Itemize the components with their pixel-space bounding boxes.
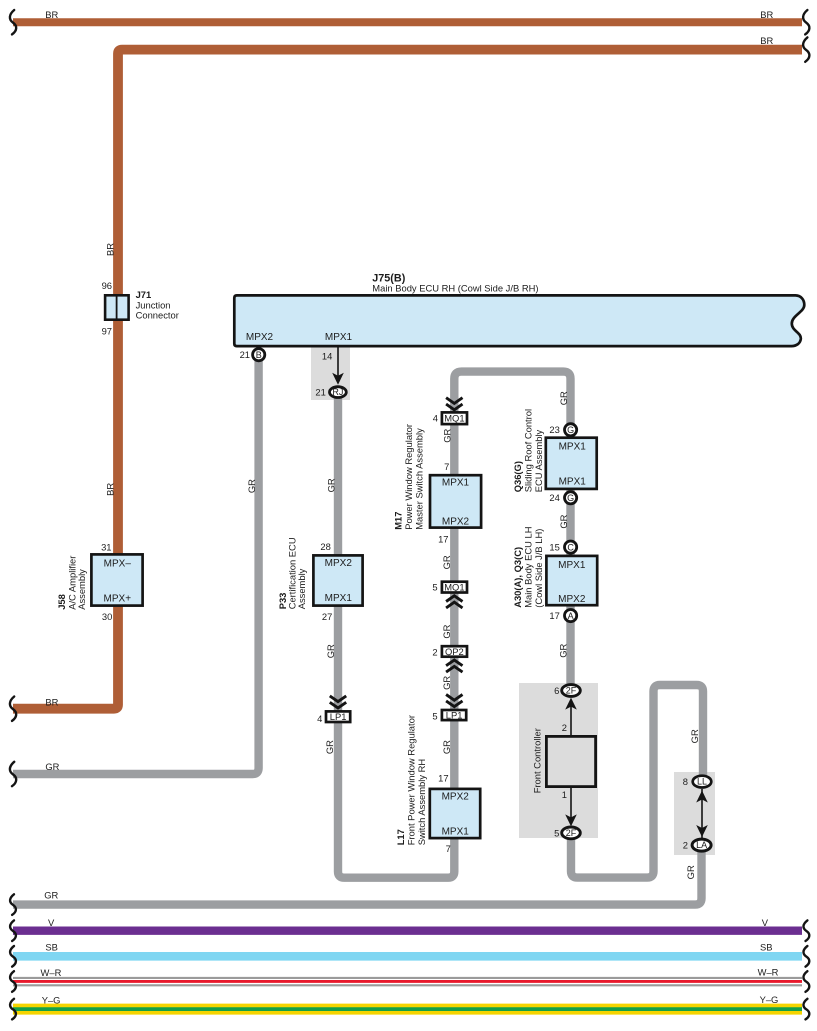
svg-text:ECU Assembly: ECU Assembly <box>533 429 544 492</box>
wire break W-R right <box>803 971 809 992</box>
svg-text:96: 96 <box>102 280 112 291</box>
svg-text:MPX2: MPX2 <box>558 594 586 605</box>
connector box MQ1 pin 5 <box>442 582 467 593</box>
chevrons above MQ1 pin 4 <box>446 398 462 410</box>
connector circle G pin 23 <box>565 424 577 436</box>
ECU box J75(B) Main Body ECU RH <box>234 295 804 346</box>
wire W-R white-red bus upper line <box>13 977 802 979</box>
svg-text:6: 6 <box>554 685 559 696</box>
svg-text:MPX1: MPX1 <box>559 441 587 452</box>
svg-text:MPX2: MPX2 <box>325 558 353 569</box>
svg-text:G: G <box>567 493 574 503</box>
svg-text:C: C <box>567 542 574 552</box>
wire BR top 1 <box>13 18 802 26</box>
connector oval LA pin 2 <box>692 839 711 851</box>
svg-text:Switch Assembly RH: Switch Assembly RH <box>416 759 427 845</box>
chevrons above LP1 pin 5 <box>446 695 462 707</box>
shading behind Front Controller <box>519 683 598 838</box>
svg-text:J71: J71 <box>136 289 152 300</box>
connector oval RJ pin 21 <box>330 387 347 398</box>
svg-text:QP2: QP2 <box>445 646 464 657</box>
svg-text:1: 1 <box>562 789 567 800</box>
svg-text:Connector: Connector <box>136 310 179 321</box>
svg-text:SB: SB <box>760 941 773 952</box>
svg-text:Main Body ECU RH (Cowl Side J/: Main Body ECU RH (Cowl Side J/B RH) <box>372 283 538 294</box>
wire break top left <box>10 10 16 34</box>
svg-text:MPX2: MPX2 <box>442 516 470 527</box>
svg-text:97: 97 <box>102 326 112 337</box>
svg-text:MPX2: MPX2 <box>246 332 274 343</box>
wire break SB right <box>803 946 809 967</box>
svg-text:GR: GR <box>441 555 452 569</box>
wire break Y-G right <box>803 999 809 1020</box>
wire GR RJ-P33-LP1 column joined to M17-L17 column <box>338 394 454 878</box>
wire break BR2 right <box>803 37 809 61</box>
svg-text:Sliding Roof Control: Sliding Roof Control <box>522 409 533 492</box>
svg-text:Front Power Window Regulator: Front Power Window Regulator <box>406 715 417 845</box>
svg-text:BR: BR <box>45 9 58 20</box>
connector oval 2F pin 6 <box>562 685 581 697</box>
svg-text:RJ: RJ <box>332 387 343 397</box>
svg-text:BR: BR <box>760 9 773 20</box>
junction connector J71 <box>105 295 129 319</box>
svg-text:(Cowl Side J/B LH): (Cowl Side J/B LH) <box>533 529 544 608</box>
svg-text:GR: GR <box>442 428 453 442</box>
svg-text:2F: 2F <box>566 828 577 838</box>
svg-text:MPX1: MPX1 <box>559 477 587 488</box>
connector circle C pin 15 <box>565 541 577 553</box>
svg-text:5: 5 <box>432 582 437 593</box>
svg-text:BR: BR <box>105 243 116 256</box>
svg-text:Q36(G): Q36(G) <box>512 461 523 492</box>
svg-text:LL: LL <box>697 777 707 787</box>
svg-text:MPX2: MPX2 <box>442 791 470 802</box>
wire GR arch from MQ1 to Q36 column <box>454 372 570 687</box>
svg-text:GR: GR <box>441 624 452 638</box>
shading behind LL LA connectors <box>674 772 715 855</box>
svg-text:17: 17 <box>549 610 559 621</box>
svg-text:GR: GR <box>45 761 59 772</box>
wire SB sky blue bus <box>13 952 802 961</box>
svg-text:24: 24 <box>549 492 559 503</box>
component box Front Controller <box>546 736 595 786</box>
svg-text:MPX1: MPX1 <box>325 332 353 343</box>
svg-text:M17: M17 <box>392 512 403 530</box>
connector circle B pin 21 <box>253 349 265 361</box>
component box M17 Power Window Regulator Master Switch Assembly <box>430 475 481 527</box>
svg-text:MPX+: MPX+ <box>104 594 132 605</box>
svg-text:GR: GR <box>246 479 257 493</box>
chevrons above LP1 pin 4 <box>330 696 346 708</box>
svg-text:23: 23 <box>549 424 559 435</box>
svg-text:B: B <box>256 350 262 360</box>
svg-text:A: A <box>568 611 574 621</box>
wire GR from 2F to LL <box>571 685 703 878</box>
wire break Y-G left <box>10 999 16 1020</box>
component box J58 A/C Amplifier Assembly <box>91 554 142 605</box>
svg-text:LP1: LP1 <box>330 711 347 722</box>
svg-text:17: 17 <box>438 534 448 545</box>
svg-text:Front Controller: Front Controller <box>531 728 542 793</box>
svg-text:V: V <box>762 917 769 928</box>
svg-text:MPX1: MPX1 <box>558 560 586 571</box>
svg-text:4: 4 <box>317 713 322 724</box>
svg-text:BR: BR <box>105 483 116 496</box>
svg-text:G: G <box>567 425 574 435</box>
connector oval LL pin 8 <box>693 776 712 788</box>
connector box MQ1 pin 4 <box>442 412 467 424</box>
svg-text:A30(A), Q3(C): A30(A), Q3(C) <box>512 547 523 608</box>
svg-text:GR: GR <box>558 643 569 657</box>
svg-text:GR: GR <box>685 865 696 879</box>
svg-text:GR: GR <box>326 478 337 492</box>
double arrow between LL and LA <box>696 789 708 839</box>
svg-text:MPX–: MPX– <box>104 559 132 570</box>
svg-text:5: 5 <box>554 827 559 838</box>
chevrons below MQ1 pin 5 <box>446 596 462 608</box>
connector circle A pin 17 <box>565 610 577 622</box>
svg-text:28: 28 <box>320 541 330 552</box>
svg-text:31: 31 <box>101 541 111 552</box>
wire break BR1 right <box>803 10 809 34</box>
svg-text:GR: GR <box>325 644 336 658</box>
wire BR top 2 vertical and bottom-left run <box>13 50 802 709</box>
svg-text:21: 21 <box>240 349 250 360</box>
chevrons below QP2 <box>446 660 462 672</box>
svg-text:SB: SB <box>45 941 58 952</box>
svg-text:7: 7 <box>444 461 449 472</box>
svg-text:W–R: W–R <box>758 967 779 978</box>
svg-text:LA: LA <box>696 840 707 850</box>
svg-text:27: 27 <box>322 611 332 622</box>
svg-text:LP1: LP1 <box>446 710 463 721</box>
svg-text:GR: GR <box>558 391 569 405</box>
svg-text:GR: GR <box>441 676 452 690</box>
wire break SB left <box>10 946 16 967</box>
svg-text:J58: J58 <box>56 594 67 610</box>
wire break GR left <box>10 762 16 786</box>
svg-text:GR: GR <box>558 514 569 528</box>
svg-text:Y–G: Y–G <box>760 994 779 1005</box>
connector circle G pin 24 <box>565 492 577 504</box>
component box A30(A) Q3(C) Main Body ECU LH <box>546 556 597 605</box>
svg-text:8: 8 <box>683 776 688 787</box>
svg-text:MQ1: MQ1 <box>444 413 464 424</box>
svg-text:BR: BR <box>760 35 773 46</box>
wire break bottom left BR <box>10 697 16 721</box>
svg-text:2F: 2F <box>566 686 577 696</box>
svg-text:Assembly: Assembly <box>296 568 307 609</box>
svg-text:MPX1: MPX1 <box>442 478 470 489</box>
svg-text:MPX1: MPX1 <box>442 827 470 838</box>
svg-text:7: 7 <box>446 843 451 854</box>
connector box LP1 pin 4 <box>326 711 350 722</box>
svg-text:21: 21 <box>315 387 325 398</box>
svg-text:4: 4 <box>433 413 438 424</box>
svg-text:17: 17 <box>438 772 448 783</box>
connector box QP2 <box>442 646 467 657</box>
wire break GR bus left <box>10 894 16 915</box>
svg-text:30: 30 <box>102 611 112 622</box>
connector box LP1 pin 5 <box>442 710 466 721</box>
component box Q36(G) Sliding Roof Control ECU Assembly <box>546 438 597 489</box>
svg-text:BR: BR <box>45 697 58 708</box>
wire GR from pin 21 B to left edge <box>13 356 259 774</box>
svg-text:L17: L17 <box>395 829 406 845</box>
svg-text:Power Window Regulator: Power Window Regulator <box>403 424 414 530</box>
svg-text:MQ1: MQ1 <box>444 582 464 593</box>
svg-text:2: 2 <box>562 722 567 733</box>
svg-text:2: 2 <box>432 647 437 658</box>
svg-text:GR: GR <box>44 889 58 900</box>
svg-text:GR: GR <box>441 740 452 754</box>
wire break W-R left <box>10 971 16 992</box>
arrow from Front Controller pin 2 up to 2F <box>565 698 577 736</box>
wire GR bus bottom joined to LA <box>13 849 702 905</box>
svg-text:14: 14 <box>322 351 332 362</box>
svg-text:W–R: W–R <box>41 967 62 978</box>
arrow from J75 pin 14 to RJ <box>332 347 344 385</box>
svg-text:GR: GR <box>689 729 700 743</box>
svg-text:Master Switch Assembly: Master Switch Assembly <box>414 428 425 530</box>
component box L17 Front Power Window Regulator Switch Assembly RH <box>430 789 480 838</box>
wire break V left <box>10 920 16 941</box>
svg-text:Y–G: Y–G <box>42 994 61 1005</box>
svg-text:15: 15 <box>549 542 559 553</box>
arrow from Front Controller pin 1 down to 2F <box>565 787 577 826</box>
wire Y-G green stripe <box>13 1007 802 1011</box>
svg-text:Assembly: Assembly <box>76 569 87 610</box>
svg-text:MPX1: MPX1 <box>325 593 353 604</box>
svg-text:GR: GR <box>324 740 335 754</box>
svg-text:V: V <box>48 917 55 928</box>
component box P33 Certification ECU Assembly <box>313 555 362 605</box>
connector oval 2F pin 5 <box>562 827 581 839</box>
wire V violet bus <box>13 927 802 935</box>
wire W-R red stripe <box>13 980 802 983</box>
wire W-R white-red bus lower line <box>13 984 802 986</box>
shading behind RJ connector <box>311 348 350 401</box>
wire Y-G yellow band <box>13 1004 802 1015</box>
svg-text:2: 2 <box>683 840 688 851</box>
svg-text:5: 5 <box>432 710 437 721</box>
wire break V right <box>803 920 809 941</box>
